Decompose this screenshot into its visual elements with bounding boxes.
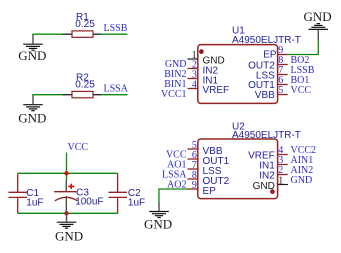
svg-text:VCC1: VCC1 — [161, 89, 187, 100]
wire (U1 EP to GND) — [288, 39, 319, 55]
resistor R1 — [63, 33, 73, 35]
svg-text:4: 4 — [192, 80, 197, 91]
junction (VCC / top rail) — [64, 171, 68, 175]
capacitor C2 — [109, 173, 128, 213]
capacitor C3 (polarized) — [65, 180, 67, 192]
pin 8 U1 (OUT2) — [278, 64, 288, 66]
ground GND (under R2) — [23, 95, 43, 111]
ground GND (under U2 EP) — [149, 202, 169, 218]
svg-text:GND: GND — [55, 229, 83, 244]
svg-text:LSSB: LSSB — [104, 23, 128, 34]
pin 6 U2 (OUT1) — [188, 158, 198, 160]
IC U2 A4950ELJTR-T — [198, 139, 278, 199]
svg-text:LSSA: LSSA — [104, 83, 129, 94]
svg-text:1: 1 — [278, 175, 283, 186]
svg-text:VREF: VREF — [203, 85, 230, 96]
wire (U2 EP to GND) — [159, 189, 189, 203]
svg-text:GND: GND — [18, 48, 46, 63]
svg-text:9: 9 — [192, 180, 197, 191]
IC U1 A4950ELJTR-T — [198, 45, 278, 104]
svg-text:GND: GND — [304, 9, 332, 24]
pin 7 U2 (LSS) — [188, 168, 198, 170]
junction (bottom rail / GND) — [64, 211, 68, 215]
pin 2 U2 (IN2) — [278, 174, 288, 176]
pin 5 U2 (VBB) — [188, 148, 198, 150]
svg-text:100uF: 100uF — [75, 196, 103, 207]
pin 8 U2 (OUT2) — [188, 178, 198, 180]
pin 6 U1 (OUT1) — [278, 84, 288, 86]
pin 3 U2 (IN1) — [278, 164, 288, 166]
ground GND (top right) — [309, 24, 329, 40]
svg-text:EP: EP — [263, 50, 277, 61]
svg-text:GND: GND — [144, 217, 172, 232]
pin 9 U2 (EP) — [188, 188, 198, 190]
pin 1 U1 (GND) — [188, 58, 198, 60]
resistor R2 — [63, 94, 73, 96]
ground GND (under R1) — [23, 34, 43, 50]
pin 9 U1 (EP) — [278, 54, 288, 56]
ground GND (cap bank) — [57, 213, 77, 228]
svg-text:EP: EP — [203, 186, 217, 197]
svg-text:A4950ELJTR-T: A4950ELJTR-T — [232, 130, 301, 141]
pin 7 U1 (LSS) — [278, 74, 288, 76]
svg-text:VCC: VCC — [291, 85, 312, 96]
svg-text:1uF: 1uF — [128, 197, 145, 208]
wire (R1 to LSSB) — [101, 33, 128, 35]
wire (GND to R2) — [32, 94, 62, 96]
wire (bottom rail) — [18, 212, 118, 214]
wire (VCC down) — [66, 153, 68, 181]
pin 1 U2 (GND) — [278, 184, 288, 186]
svg-text:GND: GND — [18, 110, 46, 125]
svg-text:VCC: VCC — [68, 142, 89, 153]
svg-text:IN2: IN2 — [259, 170, 275, 181]
svg-text:GND: GND — [291, 175, 313, 186]
svg-text:VBB: VBB — [255, 90, 275, 101]
svg-text:0.25: 0.25 — [75, 19, 95, 30]
wire (GND to R1) — [32, 33, 62, 35]
pin 4 U2 (VREF) — [278, 154, 288, 156]
pin 2 U1 (IN2) — [188, 68, 198, 70]
pin 4 U1 (VREF) — [188, 88, 198, 90]
pin 3 U1 (IN1) — [188, 78, 198, 80]
svg-text:1uF: 1uF — [26, 198, 43, 209]
svg-text:5: 5 — [278, 85, 283, 96]
pin 5 U1 (VBB) — [278, 94, 288, 96]
wire (R2 to LSSA) — [101, 94, 128, 96]
capacitor C1 — [9, 173, 28, 213]
wire (top rail) — [18, 172, 118, 174]
svg-text:A4950ELJTR-T: A4950ELJTR-T — [232, 35, 301, 46]
svg-text:0.25: 0.25 — [75, 80, 95, 91]
